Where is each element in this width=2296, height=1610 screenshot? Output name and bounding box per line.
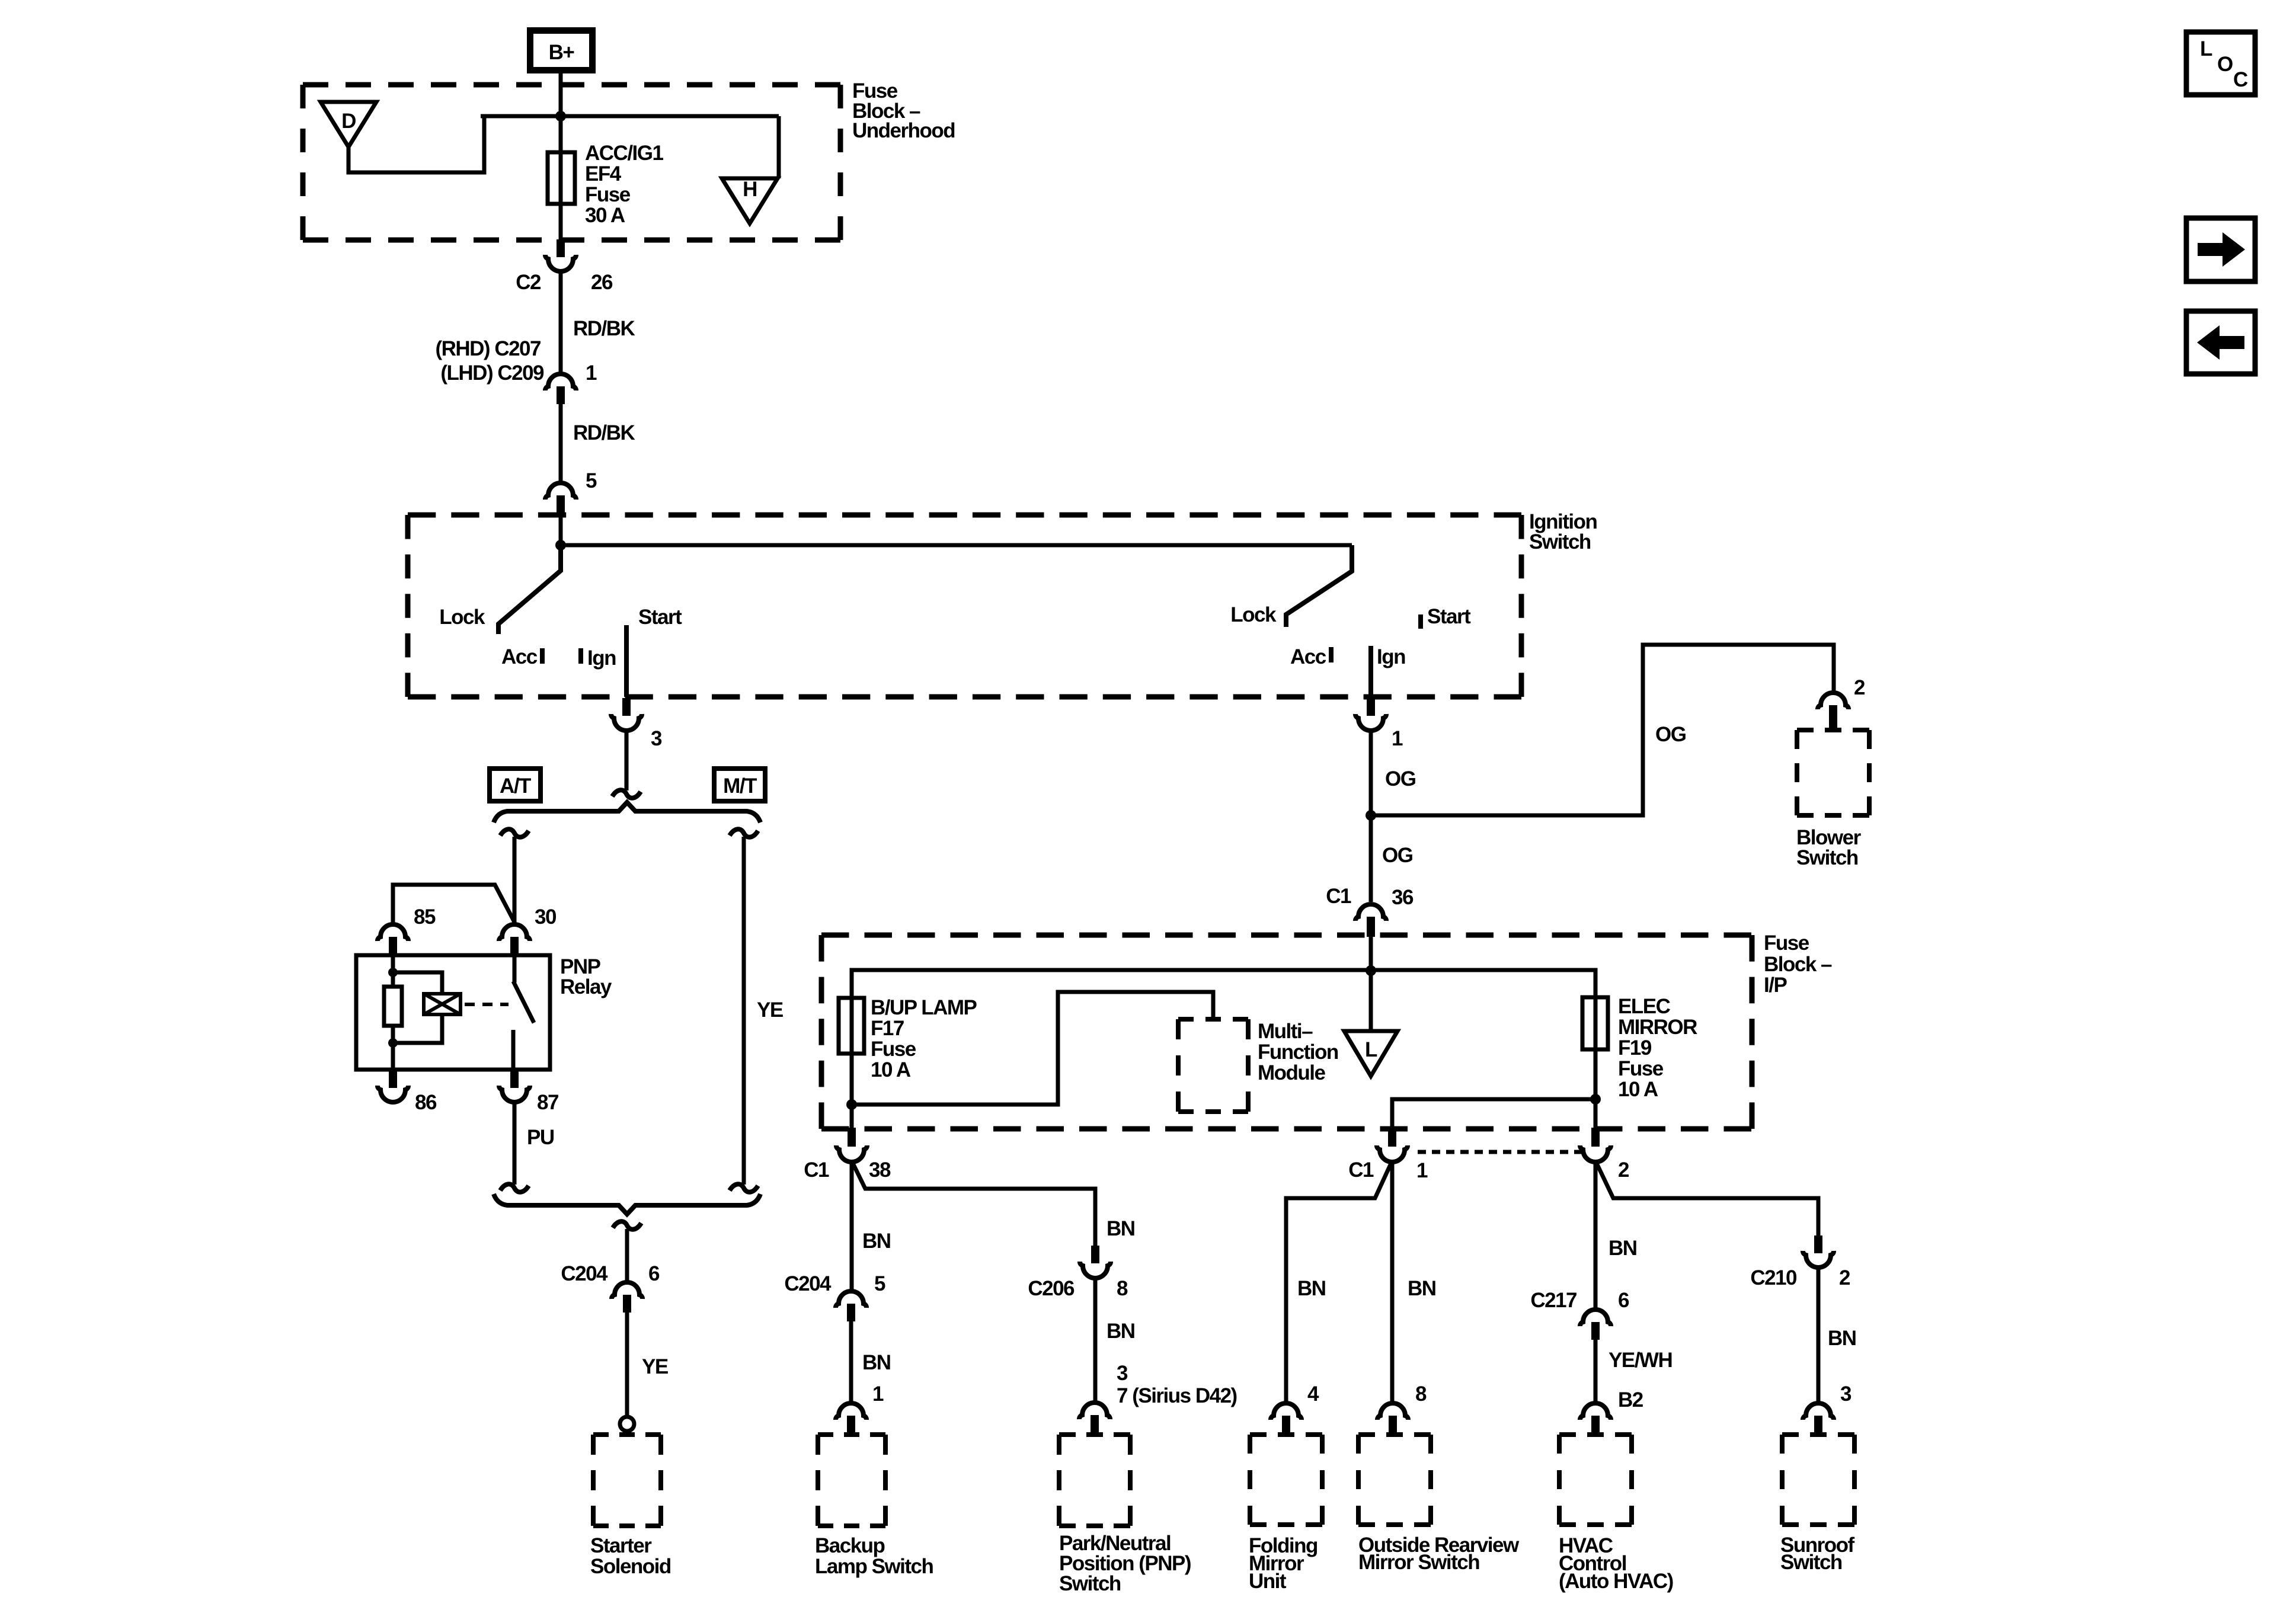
svg-text:Fuse: Fuse (585, 183, 631, 206)
svg-text:Backup: Backup (815, 1534, 885, 1557)
svg-text:Lamp Switch: Lamp Switch (815, 1555, 933, 1578)
svg-text:L: L (1365, 1038, 1377, 1061)
svg-text:M/T: M/T (723, 774, 757, 798)
svg-text:85: 85 (414, 905, 436, 929)
wire M/T branch (YE) down (742, 837, 746, 1185)
svg-text:C210: C210 (1750, 1266, 1797, 1289)
svg-text:EF4: EF4 (585, 162, 622, 185)
svg-text:O: O (2217, 53, 2233, 76)
arrow previous page left (2186, 311, 2255, 374)
svg-text:F17: F17 (871, 1017, 904, 1040)
svg-text:Lock: Lock (1230, 603, 1277, 626)
wire break hook (612, 790, 641, 798)
wire BN to sunroof switch (1817, 1266, 1821, 1403)
svg-text:C204: C204 (784, 1272, 832, 1295)
connector pin 2 blower switch (1818, 676, 1865, 730)
wire BN to outside rearview mirror switch (1390, 1161, 1395, 1403)
svg-text:Switch: Switch (1780, 1551, 1842, 1574)
svg-text:Module: Module (1258, 1061, 1326, 1084)
connector C204 pin 5 (784, 1272, 885, 1321)
svg-text:87: 87 (537, 1091, 558, 1114)
A/T option box (490, 769, 541, 801)
label Fuse Block Underhood (852, 79, 955, 142)
svg-text:8: 8 (1117, 1277, 1128, 1300)
wire BN to HVAC control (1594, 1161, 1598, 1310)
svg-text:38: 38 (869, 1158, 891, 1182)
connector pin 86 PNP relay (378, 1070, 437, 1114)
wire BN to PNP switch branch (852, 1161, 1095, 1247)
wire RD/BK (559, 404, 563, 483)
connector C2 pin 26 (516, 239, 613, 294)
svg-text:30: 30 (535, 905, 557, 929)
svg-text:C2: C2 (516, 271, 541, 294)
svg-text:Unit: Unit (1249, 1570, 1287, 1593)
connector C217 pin 6 (1530, 1289, 1629, 1340)
connector pin PNP switch (1079, 1403, 1110, 1433)
svg-text:B2: B2 (1618, 1388, 1643, 1411)
wire BN to folding mirror unit (1286, 1161, 1392, 1403)
svg-text:RD/BK: RD/BK (573, 421, 635, 444)
svg-text:6: 6 (1618, 1289, 1629, 1312)
svg-text:1: 1 (872, 1382, 884, 1406)
svg-text:3: 3 (651, 727, 662, 750)
svg-text:8: 8 (1415, 1382, 1427, 1406)
svg-text:Relay: Relay (560, 975, 612, 998)
svg-text:36: 36 (1392, 886, 1414, 909)
wire A/T branch down (513, 837, 517, 924)
svg-text:I/P: I/P (1764, 974, 1787, 997)
label Ignition Switch (1529, 510, 1597, 553)
svg-text:YE/WH: YE/WH (1609, 1349, 1672, 1372)
svg-text:2: 2 (1618, 1158, 1629, 1182)
wire F19 to C1 pin 1 (1392, 1099, 1595, 1129)
node F17 output junction (846, 1099, 857, 1110)
connector pin B2 HVAC control (1580, 1403, 1611, 1433)
svg-text:Start: Start (638, 606, 682, 629)
wire start circuit down (625, 729, 629, 790)
node ignition feed junction (555, 540, 566, 550)
svg-text:A/T: A/T (500, 774, 531, 798)
wire into ignition switch (559, 515, 563, 545)
svg-text:BN: BN (1297, 1277, 1326, 1300)
svg-text:C1: C1 (1326, 885, 1351, 908)
node F19 output junction (1590, 1094, 1601, 1105)
svg-text:Starter: Starter (590, 1534, 652, 1557)
brace split A/T-M/T (494, 802, 760, 822)
wire to D triangle (348, 116, 484, 172)
wire B+ down into fuse block (559, 73, 563, 154)
svg-text:Function: Function (1258, 1041, 1338, 1064)
svg-text:H: H (743, 178, 757, 201)
wire relay coil feed (393, 885, 514, 924)
switch blade left pole (Lock position) (498, 545, 561, 634)
svg-text:5: 5 (874, 1272, 885, 1295)
connector C1 pin 36 (1326, 885, 1414, 937)
svg-text:Switch: Switch (1059, 1572, 1121, 1595)
svg-text:1: 1 (586, 361, 597, 385)
wire to multi-function module (852, 992, 1213, 1105)
fuse ELEC MIRROR F19 10A (1582, 997, 1608, 1049)
svg-text:OG: OG (1382, 844, 1413, 867)
svg-text:BN: BN (1609, 1237, 1637, 1260)
svg-text:10 A: 10 A (1618, 1078, 1658, 1101)
wire BN backup lamp switch (850, 1161, 854, 1291)
svg-text:Multi–: Multi– (1258, 1020, 1313, 1043)
svg-text:Underhood: Underhood (852, 119, 955, 142)
wire RD/BK (559, 270, 563, 374)
svg-text:(RHD) C207: (RHD) C207 (435, 337, 541, 360)
connector C206 pin 8 (1028, 1246, 1128, 1300)
svg-text:Switch: Switch (1796, 846, 1858, 869)
connector pin 5 into ignition switch (545, 469, 597, 515)
connector C1 pin 38 (804, 1128, 891, 1182)
wire branch to blower switch (1371, 645, 1834, 815)
connector C207/C209 pin 1 (435, 337, 597, 404)
svg-text:86: 86 (415, 1091, 437, 1114)
svg-text:BN: BN (862, 1230, 891, 1253)
HVAC Control box (1559, 1435, 1632, 1525)
Multi-Function Module box (1178, 1019, 1248, 1112)
connector pin 1 backup lamp switch (836, 1403, 866, 1433)
coil symbol (box with X) (424, 994, 461, 1014)
svg-text:2: 2 (1854, 676, 1865, 699)
svg-text:Fuse: Fuse (871, 1038, 916, 1061)
relay PNP box (356, 955, 550, 1070)
LOC reference box (2186, 32, 2255, 95)
dotted line C1 connector grouping (1418, 1150, 1581, 1154)
svg-text:5: 5 (586, 469, 597, 492)
node I/P bus junction (1366, 965, 1376, 976)
wire I/P bus (852, 970, 1595, 998)
wire break hook A/T bottom (500, 1184, 529, 1192)
svg-text:Acc: Acc (1290, 645, 1326, 668)
svg-text:BN: BN (1408, 1277, 1436, 1300)
wire BN to backup lamp switch (849, 1321, 853, 1403)
svg-text:4: 4 (1307, 1382, 1319, 1406)
svg-text:Ign: Ign (587, 646, 616, 670)
svg-text:30 A: 30 A (585, 204, 625, 227)
svg-text:YE: YE (757, 998, 783, 1022)
Outside Rearview Mirror Switch box (1358, 1435, 1431, 1525)
node L (in-fuse-block destination) (1344, 1031, 1398, 1076)
svg-text:BN: BN (1107, 1217, 1135, 1240)
connector pin 4 folding mirror unit (1271, 1403, 1302, 1433)
fuse block I/P dashed box (821, 935, 1752, 1129)
svg-text:BN: BN (1107, 1320, 1135, 1343)
connector pin 3 sunroof switch (1803, 1403, 1834, 1433)
svg-text:B+: B+ (549, 41, 575, 64)
connector pin 85 PNP relay (378, 905, 436, 955)
node OG branch junction (1366, 810, 1376, 821)
brace merge A/T-M/T (494, 1194, 760, 1214)
wire PU from pin 87 (513, 1101, 517, 1185)
Backup Lamp Switch box (818, 1435, 885, 1526)
svg-text:Start: Start (1427, 605, 1471, 628)
svg-text:3: 3 (1840, 1382, 1851, 1406)
svg-text:YE: YE (642, 1355, 668, 1378)
svg-text:Acc: Acc (501, 645, 538, 668)
svg-text:Ign: Ign (1377, 645, 1405, 668)
connector C210 pin 2 (1750, 1235, 1850, 1289)
connector pin 8 outside rearview mirror switch (1377, 1403, 1408, 1433)
Blower Switch box (1797, 730, 1869, 815)
svg-text:Mirror Switch: Mirror Switch (1358, 1551, 1479, 1574)
ring terminal starter solenoid (620, 1417, 634, 1431)
wire branch to sunroof switch (1595, 1161, 1818, 1235)
node coil top (388, 968, 398, 977)
connector C1 pin 2 (1580, 1128, 1629, 1182)
svg-text:1: 1 (1392, 727, 1403, 750)
node junction at B+ feed (555, 111, 566, 121)
svg-text:L: L (2200, 37, 2212, 60)
svg-text:RD/BK: RD/BK (573, 317, 635, 340)
connector C1 pin 1 (1348, 1128, 1428, 1182)
svg-text:C1: C1 (804, 1158, 829, 1182)
fuse ACC/IG1 EF4 30A (548, 116, 575, 240)
wire YE/WH to HVAC (1594, 1340, 1598, 1403)
contact Ign (right pole) (1368, 646, 1373, 697)
svg-text:D: D (341, 110, 356, 133)
Starter Solenoid box (593, 1435, 661, 1526)
svg-text:C206: C206 (1028, 1277, 1075, 1300)
svg-text:1: 1 (1416, 1159, 1428, 1182)
node D (in-fuse-block destination) (321, 102, 376, 147)
resistor relay internal (384, 987, 402, 1026)
svg-text:(Auto HVAC): (Auto HVAC) (1559, 1570, 1673, 1593)
svg-text:7 (Sirius D42): 7 (Sirius D42) (1117, 1384, 1237, 1407)
wire fuse F17 output (850, 1054, 854, 1129)
svg-text:MIRROR: MIRROR (1618, 1016, 1697, 1039)
relay coil left leg (391, 955, 395, 1070)
relay switch blade (513, 955, 517, 982)
connector pin 1 ignition output ign (1355, 698, 1403, 750)
arrow next page right (2186, 218, 2255, 281)
wire break hook M/T bottom (730, 1184, 758, 1192)
svg-text:26: 26 (591, 271, 613, 294)
wire fuse F19 output (1594, 1049, 1598, 1129)
svg-text:OG: OG (1655, 723, 1686, 746)
ignition switch dashed box (408, 515, 1521, 697)
wire ignition internal bus (561, 543, 1352, 548)
svg-text:B/UP LAMP: B/UP LAMP (871, 996, 977, 1019)
connector pin 30 PNP relay (499, 905, 557, 955)
wire OG down (1369, 729, 1373, 902)
wire break hook M/T branch (730, 829, 758, 837)
fuse B/UP LAMP F17 10A (839, 998, 864, 1054)
wire coil branch (393, 972, 442, 994)
wire horizontal distribution inside fuse block (481, 114, 779, 119)
wire break hook merged (613, 1221, 641, 1229)
switch blade right pole (Lock position) (1286, 545, 1352, 627)
wire C1-36 into I/P bus (1369, 937, 1373, 1031)
svg-text:BN: BN (862, 1351, 891, 1374)
svg-text:OG: OG (1385, 767, 1416, 790)
svg-text:10 A: 10 A (871, 1058, 911, 1081)
node coil bottom (388, 1038, 398, 1048)
node H (in-fuse-block destination) (722, 178, 778, 223)
Park/Neutral Position Switch box (1059, 1435, 1130, 1526)
svg-text:BN: BN (1828, 1327, 1856, 1350)
Sunroof Switch box (1782, 1435, 1854, 1525)
svg-text:C217: C217 (1530, 1289, 1576, 1312)
Folding Mirror Unit box (1250, 1435, 1322, 1525)
wire break hook A/T branch (500, 829, 529, 837)
connector pin 3 ignition output start (611, 698, 662, 750)
svg-text:2: 2 (1839, 1266, 1850, 1289)
wire merged down (625, 1229, 629, 1282)
connector C204 pin 6 (561, 1262, 660, 1313)
wire YE to starter solenoid (625, 1313, 629, 1416)
svg-text:F19: F19 (1618, 1036, 1652, 1060)
M/T option box (714, 769, 765, 801)
svg-text:C204: C204 (561, 1262, 608, 1285)
svg-text:C1: C1 (1348, 1158, 1374, 1182)
fuse block underhood dashed box (303, 85, 840, 240)
svg-text:Lock: Lock (439, 606, 485, 629)
svg-text:Block –: Block – (1764, 953, 1832, 976)
svg-text:PU: PU (527, 1126, 554, 1149)
dashed actuator link (465, 1003, 509, 1006)
svg-text:C: C (2233, 68, 2248, 91)
svg-text:Solenoid: Solenoid (590, 1555, 671, 1578)
connector pin 87 PNP relay (499, 1070, 558, 1114)
svg-text:Fuse: Fuse (1764, 932, 1809, 955)
relay fixed contact to pin 87 (511, 1030, 516, 1070)
svg-text:Switch: Switch (1529, 530, 1591, 553)
svg-text:6: 6 (648, 1262, 660, 1285)
svg-text:ELEC: ELEC (1618, 995, 1671, 1018)
svg-text:3: 3 (1117, 1362, 1128, 1385)
wire to H triangle (777, 116, 781, 178)
svg-text:Fuse: Fuse (1618, 1057, 1664, 1080)
contact Start (left pole) (624, 625, 629, 697)
wire BN to PNP switch (1093, 1277, 1098, 1403)
B+ battery feed box (530, 31, 593, 71)
svg-text:(LHD) C209: (LHD) C209 (440, 361, 544, 385)
svg-text:ACC/IG1: ACC/IG1 (585, 142, 664, 165)
